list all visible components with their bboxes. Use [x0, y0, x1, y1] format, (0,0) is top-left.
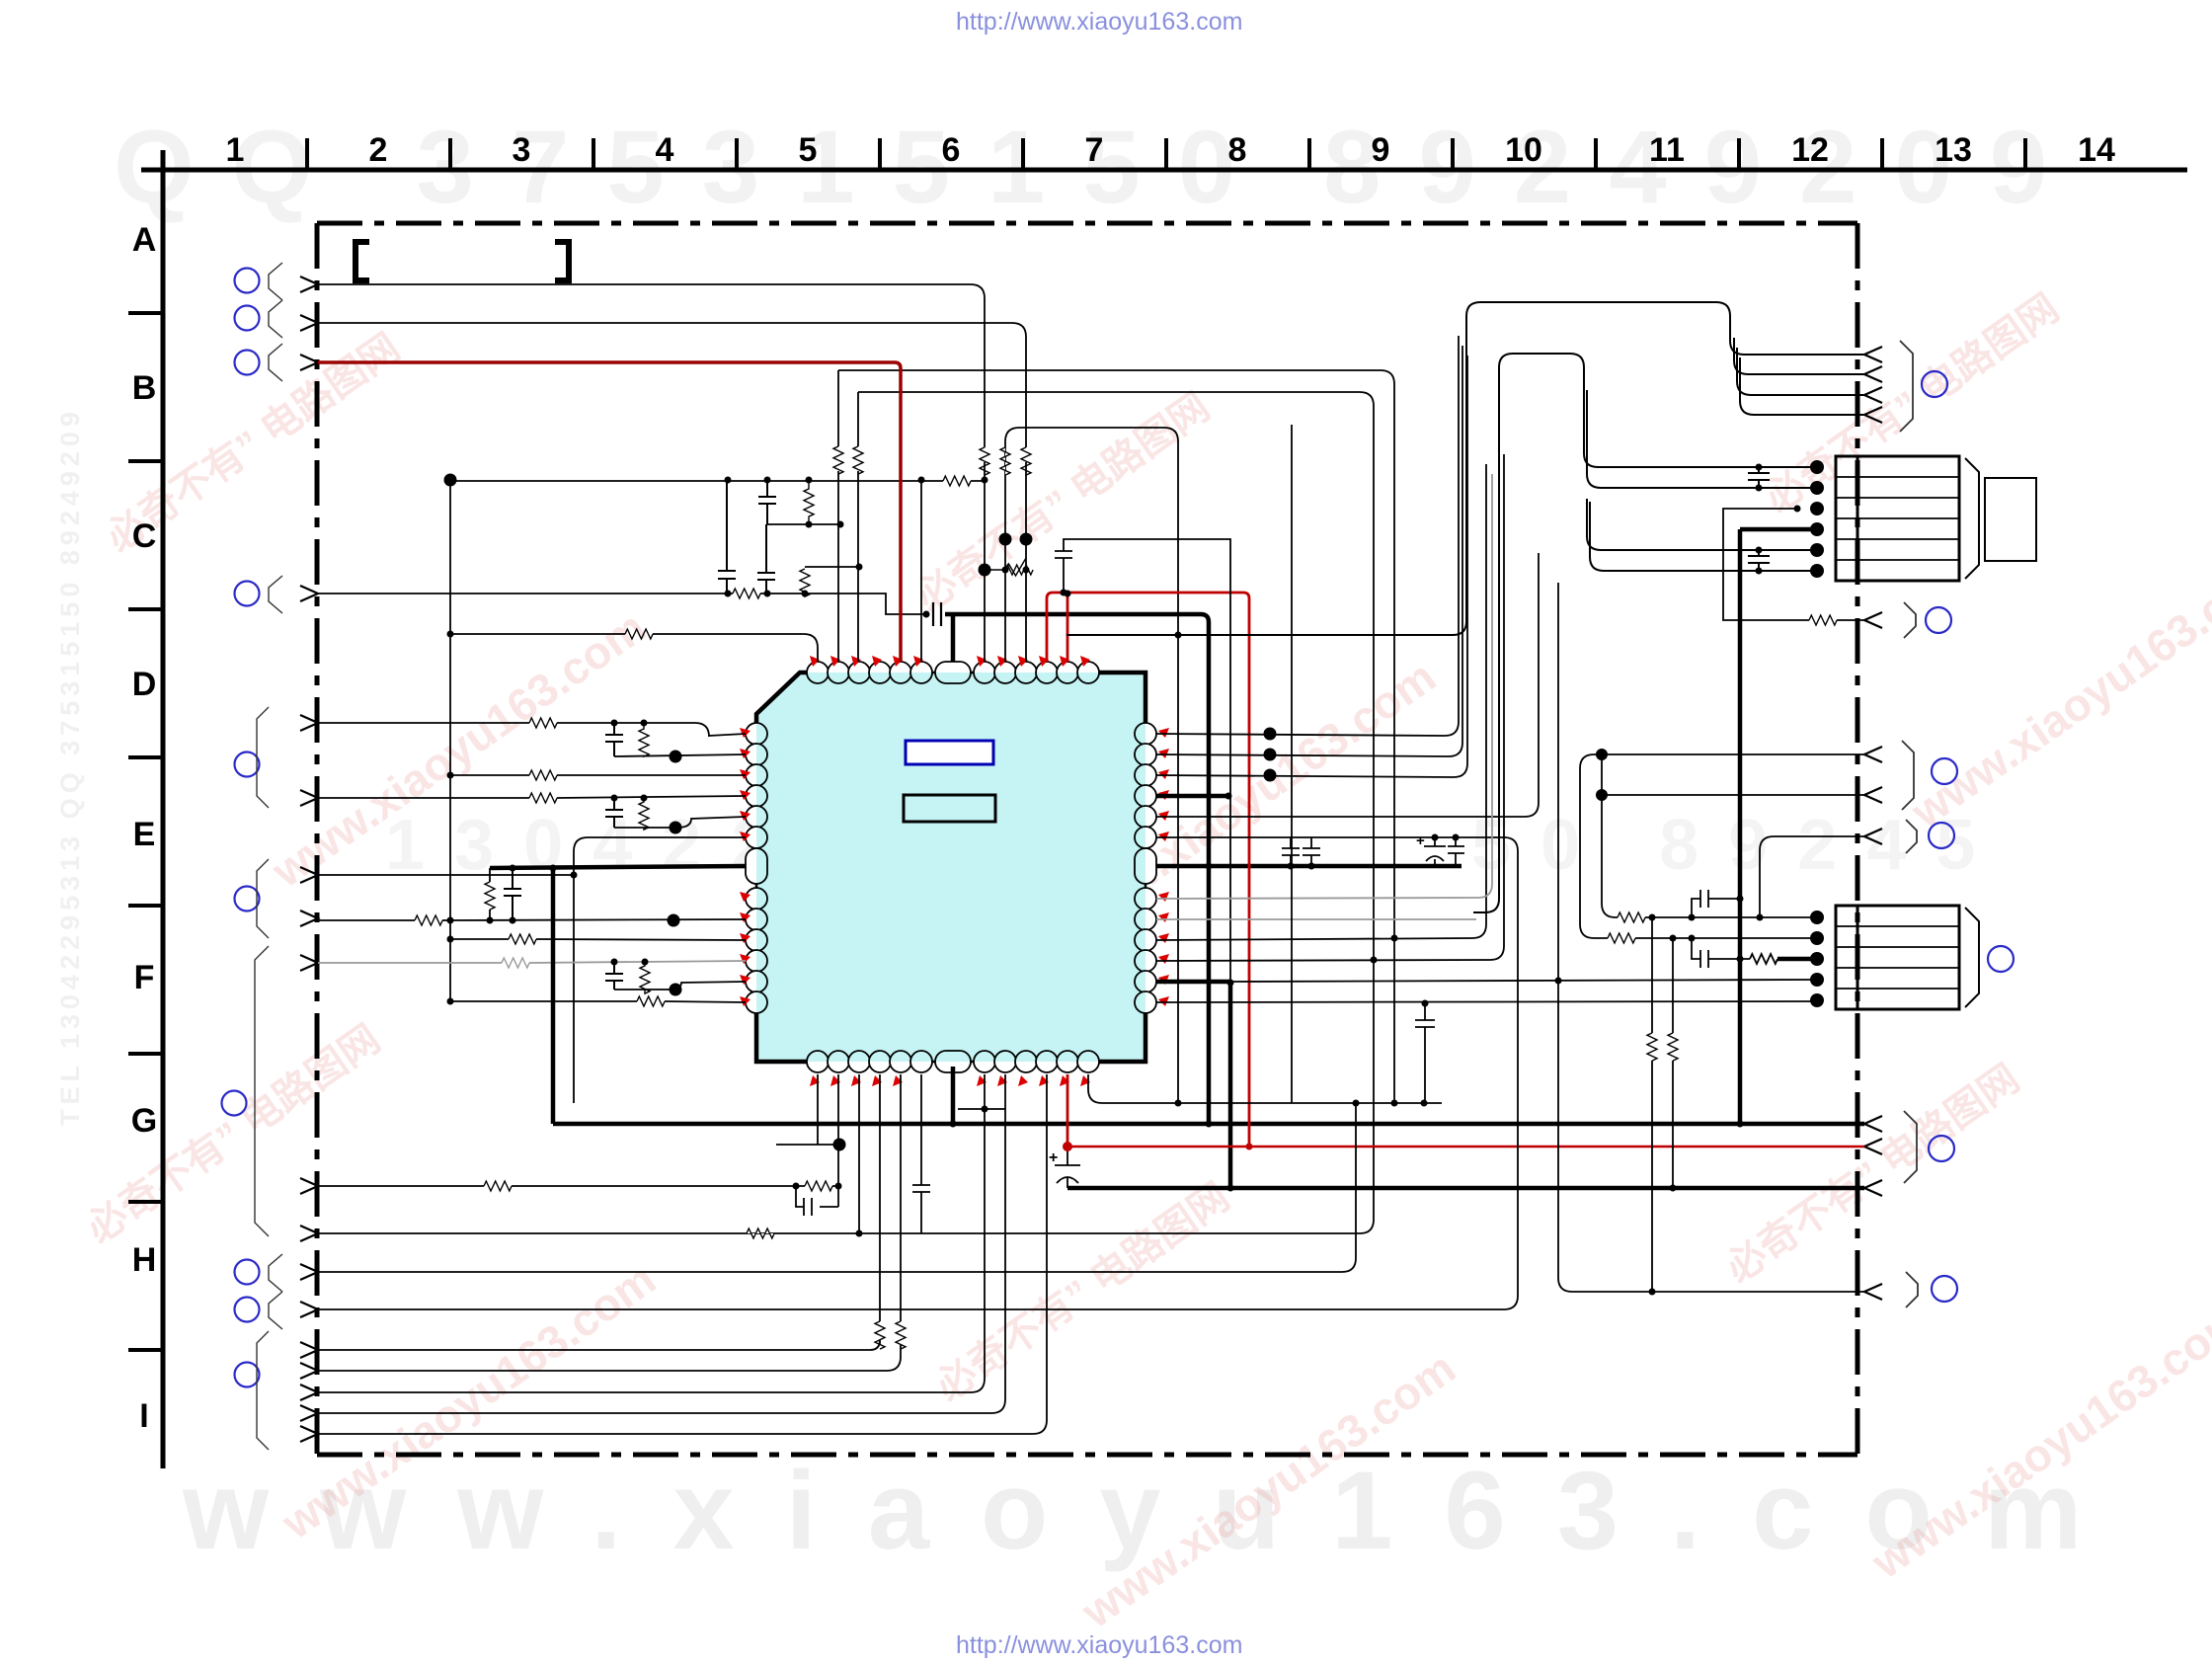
- chevron line 805 drop to block2 row1: [1602, 754, 1864, 917]
- vertical 849 with resistor: [837, 370, 839, 662]
- svg-text:A: A: [132, 221, 157, 259]
- line 1123 short: [958, 1108, 1005, 1110]
- B11 drop line 1452: [318, 1074, 1047, 1434]
- B5 drop resistor line 1388: [318, 1074, 901, 1371]
- R5 line up at 1558: [1156, 553, 1539, 817]
- red junction dots: [1063, 1142, 1253, 1151]
- resistor on 628: [1809, 615, 1837, 625]
- ic U1 thick edges: [756, 673, 818, 849]
- connector CN1 pin dots: [1810, 460, 1824, 578]
- rail 838 step to L5: [614, 817, 746, 828]
- vertical resistor drop 1673: [1651, 917, 1653, 1292]
- ic U1 left pins: [746, 723, 767, 1013]
- wire line 932 to L9: [318, 919, 746, 920]
- chevron line 847 drop to row1: [1760, 836, 1864, 917]
- R6 line cap link to v1537 and line 1326: [318, 837, 1518, 1309]
- resistor drop x815 at 574: [800, 569, 810, 596]
- res drop x653 on 974: [640, 962, 650, 993]
- B8 drop line 1410: [318, 1074, 985, 1392]
- caps hanging on thick 880 at 1307/1328: [1282, 837, 1300, 866]
- chevron 420 curl: [1740, 357, 1864, 415]
- cap below R13 line: [1415, 1003, 1435, 1103]
- block1 row2 curl: [1587, 390, 1817, 488]
- resistor on row2: [1608, 933, 1635, 943]
- block1 row6 curl: [1590, 502, 1817, 571]
- svg-text:11: 11: [1649, 131, 1685, 169]
- B6 drop with cap to 1249: [912, 1074, 930, 1233]
- wire T9 drop with corner to v1193: [1005, 428, 1178, 1103]
- row ticks: [128, 313, 163, 1350]
- svg-text:2: 2: [369, 131, 388, 169]
- left brace group I: [257, 1331, 269, 1450]
- electrolytic cap 1081 on red node: [1055, 1147, 1080, 1188]
- row5 line R13 to block2: [1156, 1001, 1817, 1002]
- cap drop x622 on 732: [605, 723, 623, 756]
- svg-text:5: 5: [799, 131, 818, 169]
- thick wire to pill L: [490, 866, 746, 868]
- wire line 785 to L3: [450, 774, 746, 776]
- thick pill R run: [1156, 864, 1461, 869]
- resistor on line 601: [733, 589, 760, 598]
- border right: [1856, 223, 1860, 1455]
- cap row1 to thick 1762: [1692, 890, 1740, 917]
- wire A-row line to T8: [318, 284, 985, 662]
- svg-text:13: 13: [1935, 131, 1972, 169]
- resistor on 1201 at cluster: [805, 1181, 832, 1191]
- B3 drop to line 1249: [858, 1074, 860, 1233]
- wire F-row line 886: [318, 874, 574, 876]
- row labels: [131, 221, 157, 1435]
- wire T1 feed line 642: [450, 634, 818, 662]
- resistor on row1: [1618, 912, 1645, 922]
- chevron line 764 to block2 row2: [1580, 754, 1864, 938]
- thick vertical 1224: [1201, 614, 1209, 1124]
- connector CN1 plug rectangle: [1985, 478, 2036, 561]
- svg-text:F: F: [134, 959, 155, 996]
- left small brackets: [269, 263, 282, 1329]
- block1 row3 path to chevron 628: [1723, 509, 1864, 620]
- resistor on line 642: [625, 629, 653, 639]
- thick block2 row3 stub: [1777, 957, 1817, 962]
- connector CN1 body: [1836, 456, 1959, 581]
- connector CN2 pin dots: [1810, 911, 1824, 1007]
- resistor drop x819: [804, 480, 814, 524]
- cap 1474: [1448, 837, 1464, 866]
- frame horizontal ruler line: [141, 168, 2187, 173]
- vertical 869 with resistor: [857, 392, 859, 662]
- black loop 1077-1246: [1055, 539, 1230, 983]
- B9 drop line 1431: [318, 1074, 1005, 1413]
- ic U1 red pin arrows bottom: [810, 1075, 1090, 1086]
- svg-text:E: E: [133, 816, 156, 853]
- ruler ticks: [307, 138, 2025, 170]
- chevron 400 curl: [1737, 348, 1864, 395]
- left chevrons: [300, 277, 318, 1442]
- B4 drop resistor line 1367: [318, 1074, 880, 1350]
- svg-text:12: 12: [1791, 131, 1829, 169]
- left brace group F: [257, 859, 269, 938]
- left connector circles: [222, 269, 260, 1387]
- rail 531: [767, 523, 840, 525]
- watermark bottom url: [956, 1631, 1242, 1660]
- gray R8 R9 wires: [1156, 474, 1492, 919]
- border left: [315, 223, 320, 1455]
- ic U1 red pin arrows right: [1158, 728, 1169, 1006]
- wire line 951 to L10: [450, 939, 746, 940]
- electrolytic cap 1453: [1424, 837, 1446, 866]
- border top: [317, 221, 1857, 226]
- thick vertical 560 and bus 1138: [553, 868, 1864, 1124]
- line 375 to v1412: [838, 370, 1394, 1103]
- svg-text:H: H: [132, 1241, 157, 1279]
- svg-text:7: 7: [1085, 131, 1104, 169]
- svg-text:+: +: [1049, 1149, 1058, 1166]
- hairpin P2 block row1 to R9 area: [1473, 354, 1817, 912]
- ic U1 inner black label box: [904, 795, 995, 822]
- red wire B12 drop: [1066, 1074, 1069, 1147]
- vertical 456: [449, 480, 451, 1001]
- line 1117 from B13: [1088, 1074, 1442, 1103]
- svg-text:14: 14: [2078, 131, 2115, 169]
- left brace group E: [257, 707, 269, 808]
- right connector circles: [1922, 371, 1957, 1302]
- R1 wire with curl: [1156, 336, 1459, 736]
- vertical 933 rail to T6: [920, 480, 922, 662]
- svg-text:6: 6: [942, 131, 961, 169]
- cap drop x622 on 974: [605, 962, 623, 990]
- pink diagonal watermarks: [79, 286, 2212, 1638]
- res drop x652 on 732: [639, 723, 649, 756]
- column labels: [226, 131, 2115, 169]
- R11 wire with curl: [1156, 454, 1504, 961]
- frame vertical line: [161, 150, 166, 1468]
- B1 drop: [776, 1074, 839, 1145]
- capacitor drop x519 thick: [504, 869, 521, 920]
- wire C-row chevron line: [318, 593, 733, 594]
- ic U1 bottom pins: [807, 1051, 1099, 1072]
- wire B-row line to T10: [318, 323, 1026, 662]
- svg-text:必奇不有” 电路图网: 必奇不有” 电路图网: [928, 1175, 1237, 1409]
- v1373 to line 1288: [318, 1103, 1356, 1272]
- svg-text:G: G: [131, 1102, 157, 1140]
- resistor on 1201 left: [484, 1181, 512, 1191]
- svg-text:www.xiaoyu163.com: www.xiaoyu163.com: [1901, 541, 2212, 837]
- wire G-row line 975 to L11 (gray): [318, 961, 746, 963]
- wire E-row line 808 to L4: [318, 796, 746, 798]
- chevron 379 curl: [1734, 338, 1864, 374]
- vertical 1308: [1291, 425, 1293, 1103]
- svg-text:D: D: [132, 666, 157, 703]
- res drop x652 on 808: [639, 798, 649, 830]
- row4 line from R12: [1230, 980, 1817, 982]
- red wire T11 to v1265: [1047, 593, 1249, 1147]
- red stub T12: [1066, 593, 1069, 662]
- thick pill T riser and 622 run: [945, 614, 1201, 662]
- ic U1 top pins: [807, 662, 1099, 683]
- capacitor drop x776 lower: [757, 524, 775, 594]
- wire E-row line 732 cluster to L1/L2: [318, 723, 746, 737]
- cap row2 to resistor row3: [1692, 938, 1740, 968]
- resistor on rail 486: [943, 476, 971, 486]
- vertical resistor drop 1694: [1672, 938, 1674, 1188]
- thick R4 stub: [1156, 794, 1228, 799]
- svg-text:1: 1: [226, 131, 245, 169]
- cap drop x622 on 808: [605, 798, 623, 828]
- ic U1 right pins: [1135, 723, 1156, 1013]
- svg-text:B: B: [132, 369, 157, 407]
- connector CN1 bracket: [1965, 458, 1979, 579]
- bottom area wires: [318, 425, 1442, 1434]
- svg-text:C: C: [132, 517, 157, 555]
- resistor on line 1249: [747, 1228, 774, 1238]
- jog 869-917 to cap 622 wire: [760, 567, 927, 614]
- resistor bridge T8-T10 row: [985, 558, 1026, 576]
- ic U1 red pin arrows left: [740, 728, 750, 1006]
- resistor on T9 drop: [1000, 447, 1010, 475]
- svg-text:4: 4: [656, 131, 674, 169]
- svg-text:TEL 13042295313 QQ 375315150: TEL 13042295313 QQ 375315150 89249209: [55, 407, 85, 1126]
- line 397 to v1391 joined with line 1249: [318, 392, 1374, 1233]
- resistor on T10 drop: [1021, 447, 1031, 475]
- block1 row5 curl: [1587, 499, 1817, 550]
- ic U1 red pin arrows top: [810, 656, 1090, 667]
- B2 drop to H cluster: [837, 1074, 839, 1207]
- series cap on 622 wire: [933, 602, 941, 626]
- svg-text:10: 10: [1505, 131, 1542, 169]
- H-row line 1201: [318, 1185, 838, 1187]
- ic U1 inner blue label box: [906, 741, 993, 764]
- svg-text:9: 9: [1372, 131, 1390, 169]
- svg-text:8: 8: [1228, 131, 1247, 169]
- right chevrons: [1864, 347, 1882, 1300]
- resistor on T8 drop: [980, 447, 989, 475]
- resistor thick row3: [1740, 954, 1777, 964]
- cap between block1 rows5-6: [1748, 550, 1770, 571]
- rail 766 to L2: [614, 754, 746, 756]
- border bottom: [317, 1453, 1857, 1458]
- thick pill B drop: [951, 1067, 956, 1124]
- capacitor drop x737: [718, 481, 736, 594]
- resistor drop x496 thick end: [489, 868, 491, 920]
- connector CN2 bracket: [1965, 908, 1979, 1007]
- thick R12 stub: [1156, 982, 1230, 1188]
- thick black wires: [490, 529, 1864, 1188]
- right braces: [1900, 341, 1918, 1307]
- svg-text:I: I: [139, 1397, 148, 1435]
- vertical 1578 to chevron 1308: [1558, 583, 1864, 1292]
- wire line 1014 to L13: [450, 1001, 746, 1002]
- red wire 1161 run to chevron: [1067, 1146, 1864, 1148]
- watermark top url: [956, 8, 1242, 37]
- connector CN2 circle: [1988, 946, 2014, 972]
- svg-text:3: 3: [513, 131, 531, 169]
- hairpin P1 line639 to chevron 359: [1066, 302, 1864, 635]
- cap parallel branch H cluster: [796, 1186, 838, 1216]
- rail 1002 step to L12: [614, 982, 746, 990]
- R2 wire with curl: [1156, 346, 1462, 756]
- red wire B-row to T5: [318, 362, 901, 662]
- header brackets: [355, 242, 369, 280]
- thick vertical 1762 block1 feed: [1740, 529, 1817, 1124]
- left tall brace F-H: [255, 946, 269, 1236]
- R10 wire with curl: [1156, 464, 1486, 940]
- capacitor drop x777: [758, 480, 776, 524]
- thick line 1203: [1067, 1186, 1864, 1191]
- vertical 581 with L6 feed: [574, 837, 746, 1103]
- ic U1 body: [756, 673, 1145, 1062]
- svg-text:+: +: [1416, 832, 1425, 849]
- cap between block1 rows1-2: [1748, 467, 1770, 488]
- R3 wire with curl: [1156, 356, 1467, 777]
- rail 486: [450, 480, 985, 482]
- svg-text:必奇不有” 电路图网: 必奇不有” 电路图网: [79, 1017, 388, 1251]
- svg-text:必奇不有” 电路图网: 必奇不有” 电路图网: [1718, 1057, 2027, 1291]
- right side web: [318, 302, 1864, 1309]
- red wires: [318, 362, 1864, 1147]
- connector CN2 body: [1836, 906, 1959, 1009]
